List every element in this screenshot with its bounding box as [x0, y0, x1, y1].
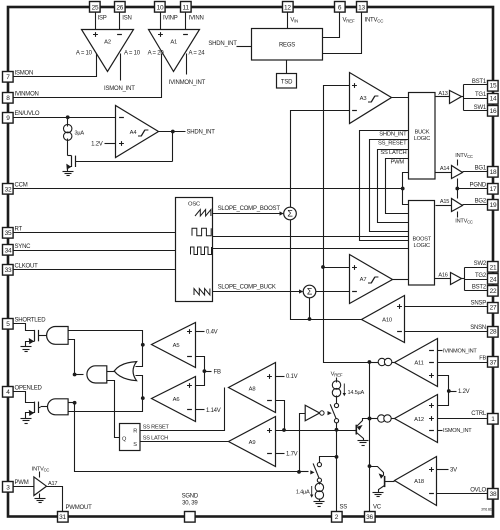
svg-text:3791 BD: 3791 BD [481, 508, 493, 512]
svg-text:A4: A4 [130, 130, 138, 136]
svg-text:IVINMON: IVINMON [15, 91, 39, 97]
block TSD [277, 74, 297, 89]
svg-text:1.2V: 1.2V [458, 389, 470, 395]
svg-text:21: 21 [490, 264, 497, 271]
wire [392, 362, 395, 364]
wire sigma1 to A3- [291, 111, 350, 208]
ground [21, 347, 32, 352]
svg-text:VREF: VREF [343, 18, 355, 24]
svg-text:37: 37 [490, 359, 497, 366]
pin 25 ISP [90, 2, 101, 13]
svg-text:IVINN: IVINN [189, 15, 204, 21]
svg-text:A16: A16 [438, 273, 447, 279]
svg-text:6: 6 [338, 4, 342, 11]
svg-text:BG1: BG1 [475, 165, 487, 171]
wire Q2 emitter from VC [370, 467, 384, 476]
svg-text:7: 7 [6, 74, 10, 81]
svg-text:R: R [133, 429, 137, 435]
node A7+ tap [321, 265, 325, 269]
svg-text:CLKOUT: CLKOUT [15, 263, 39, 269]
wire ISN pin26 to A2- [119, 13, 121, 30]
pin 27 SNSP [488, 303, 499, 314]
op-amp A12 [395, 395, 438, 443]
wire A6 out to G2 [69, 399, 143, 412]
current source 1.4uA [315, 483, 323, 499]
node A6 out node [141, 396, 145, 400]
wire VC to A3+ and A7+ [324, 86, 350, 268]
svg-text:BOOST: BOOST [412, 237, 431, 243]
wire SS_RESET buck-boost [370, 140, 409, 232]
node VC at Q2 [368, 464, 372, 468]
node VC at Q1 [368, 417, 372, 421]
svg-text:TG2: TG2 [475, 273, 487, 279]
wire Q1 collector to gnd [357, 433, 364, 441]
node FB node [203, 369, 207, 373]
svg-text:33: 33 [5, 267, 12, 274]
op-amp A11 [395, 339, 438, 387]
svg-text:A = 10: A = 10 [76, 51, 93, 57]
wire VC down to error amps [324, 268, 370, 363]
svg-text:A14: A14 [440, 166, 449, 172]
pin 8 IVINMON [3, 93, 14, 104]
pin 15 BST1 [488, 81, 499, 92]
pin 37 FB [488, 357, 499, 368]
svg-text:ISMON: ISMON [15, 70, 34, 76]
svg-text:Σ: Σ [307, 287, 313, 297]
wire BST2 [465, 290, 488, 292]
node SS at switch2 [335, 455, 339, 459]
svg-text:A = 24: A = 24 [189, 51, 206, 57]
summer sigma1 (boost slope comp) [284, 207, 297, 220]
op-amp A3 [350, 73, 392, 124]
wire A6 to OR in2 [136, 376, 143, 399]
svg-text:1.4µA: 1.4µA [296, 489, 310, 495]
svg-text:10: 10 [157, 4, 164, 11]
wire OPENLED pin4 to fet drain [14, 392, 35, 403]
svg-text:Σ: Σ [287, 209, 293, 219]
op-amp A14 [440, 166, 463, 179]
svg-text:SHDN_INT: SHDN_INT [208, 41, 237, 47]
svg-text:ISMON_INT: ISMON_INT [443, 428, 472, 434]
pin 17 PGND [488, 184, 499, 195]
node SHDN_INT node [171, 130, 175, 134]
wire EN/UVLO pin9 to A4- [14, 117, 116, 119]
wire A17 out to PWMOUT pin31 [47, 487, 63, 512]
svg-text:A17: A17 [48, 481, 57, 487]
wire A1 out IVINMON_INT [186, 54, 188, 75]
svg-text:15: 15 [490, 83, 497, 90]
wire FB stub [205, 371, 212, 373]
svg-text:VREF: VREF [331, 371, 343, 377]
node VC at A12 [368, 417, 372, 421]
svg-text:SW2: SW2 [474, 261, 487, 267]
wire [249, 46, 252, 48]
pin 7 ISMON [3, 72, 14, 83]
ground [21, 419, 32, 424]
wire A2 out ISMON_INT [120, 54, 122, 81]
svg-text:0.1V: 0.1V [286, 374, 298, 380]
svg-text:SLOPE_COMP_BUCK: SLOPE_COMP_BUCK [218, 284, 276, 290]
svg-text:A5: A5 [173, 343, 180, 349]
wire fet source to gnd [26, 413, 35, 419]
wire buck to A13 [436, 96, 450, 98]
svg-text:A8: A8 [249, 386, 256, 392]
pin 19 BG2 [488, 200, 499, 211]
wire 3V stub [437, 469, 449, 471]
svg-text:SS: SS [340, 505, 348, 511]
op-amp A6 [152, 377, 196, 422]
svg-text:VC: VC [373, 505, 382, 511]
svg-text:28: 28 [490, 329, 497, 336]
svg-text:35: 35 [5, 230, 12, 237]
ground [314, 502, 325, 507]
pin 12 VIN [283, 2, 294, 13]
svg-text:INTVCC: INTVCC [455, 153, 473, 159]
wire boost to A15 [436, 205, 452, 207]
wire OVLO to A18 [437, 493, 488, 495]
op-amp A16 [438, 273, 461, 285]
wire PWM pin3 to A17 [14, 486, 34, 488]
wire SS bus [276, 430, 354, 432]
wire A2 out to ISMON pin7 [14, 54, 97, 77]
pin 13 INTVCC [357, 2, 368, 13]
wire slope comp buck to sum2 [213, 291, 300, 293]
wire latch Q to AND in2 [107, 381, 120, 438]
pin 36 VC [365, 512, 376, 523]
svg-text:8: 8 [6, 95, 10, 102]
pin 18 BG1 [488, 167, 499, 178]
pin 11 IVINN [181, 2, 192, 13]
svg-text:LOGIC: LOGIC [414, 136, 430, 142]
wire bus to G1 [69, 340, 75, 375]
svg-text:A2: A2 [104, 40, 111, 46]
op-amp A1 [149, 30, 200, 72]
wire [354, 430, 357, 432]
svg-text:OVLO: OVLO [470, 487, 486, 493]
wire boost to A16 [435, 278, 451, 280]
gate AND center [87, 366, 107, 383]
svg-text:SHDN_INT: SHDN_INT [187, 130, 216, 136]
svg-text:BUCK: BUCK [415, 130, 430, 136]
OSC square wave 1 icon [192, 228, 211, 236]
pin 28 SNSN [488, 327, 499, 338]
svg-text:SNSN: SNSN [470, 325, 486, 331]
pin 1 CTRL [488, 414, 499, 425]
pin 2 SS [332, 512, 343, 523]
svg-text:26: 26 [116, 4, 123, 11]
wire 3uA to MOSFET drain [67, 139, 69, 156]
wire bus down to switch line [75, 403, 300, 472]
svg-text:PWM: PWM [15, 480, 29, 486]
wire RT pin35 to OSC [14, 232, 176, 234]
op-amp A7 [350, 255, 393, 304]
pin 32 CCM [3, 184, 14, 195]
svg-text:SGND: SGND [182, 493, 199, 499]
wire SHDN_INT buck-boost [360, 131, 409, 241]
wire SHORTLED pin5 to fet drain [14, 324, 35, 331]
pin 33 CLKOUT [3, 265, 14, 276]
svg-text:PWMOUT: PWMOUT [66, 505, 93, 511]
pin 5 SHORTLED [3, 319, 14, 330]
svg-text:BST1: BST1 [472, 79, 487, 85]
op-amp A5 [152, 323, 196, 368]
svg-text:11: 11 [183, 4, 190, 11]
op-amp A8 [229, 363, 276, 413]
wire 1.14V stub [196, 409, 205, 411]
svg-text:4: 4 [6, 389, 10, 396]
block BUCK LOGIC [409, 93, 436, 180]
svg-text:A6: A6 [173, 397, 180, 403]
svg-text:22: 22 [490, 288, 497, 295]
pin 10 IVINP [155, 2, 166, 13]
pin 14 TG1 [488, 94, 499, 105]
pin 21 SW2 [488, 262, 499, 273]
inverter A-inv [305, 405, 319, 421]
svg-text:25: 25 [92, 4, 99, 11]
summer sigma2 (buck slope comp) [303, 285, 316, 298]
pin 35 RT [3, 228, 14, 239]
wire A10 out to sigma1 [291, 220, 362, 320]
svg-text:A9: A9 [249, 440, 256, 446]
wire to switch2 arrow [300, 471, 309, 473]
svg-text:IVINMON_INT: IVINMON_INT [443, 349, 477, 355]
svg-text:34: 34 [5, 247, 12, 254]
svg-text:TG1: TG1 [475, 92, 487, 98]
svg-text:INTVCC: INTVCC [455, 219, 473, 225]
svg-text:ISMON_INT: ISMON_INT [104, 86, 135, 92]
wire A8 out SS_RESET to latch R [141, 388, 225, 431]
ground [373, 493, 384, 497]
svg-text:1.7V: 1.7V [286, 452, 298, 458]
svg-text:A12: A12 [414, 417, 424, 423]
svg-text:36: 36 [366, 514, 373, 521]
wire CTRL to A12 [438, 418, 488, 420]
wire BST1 [464, 84, 488, 86]
latch SR [120, 424, 141, 451]
svg-text:BST2: BST2 [472, 285, 487, 291]
wire A5 to OR in1 [136, 345, 143, 367]
svg-text:SHDN_INT: SHDN_INT [379, 132, 407, 138]
svg-text:SLOPE_COMP_BOOST: SLOPE_COMP_BOOST [218, 206, 281, 212]
svg-text:SNSP: SNSP [471, 301, 487, 307]
wire 1.2V to A4+ [105, 143, 116, 145]
wire sigma2 lower input [309, 298, 311, 320]
svg-text:1: 1 [491, 416, 495, 423]
svg-text:17: 17 [490, 186, 497, 193]
svg-text:CCM: CCM [15, 182, 28, 188]
wire FB to A11 [438, 362, 488, 364]
svg-text:1.2V: 1.2V [91, 141, 103, 147]
svg-text:SS RESET: SS RESET [143, 424, 170, 430]
pin 31 PWMOUT [58, 512, 69, 523]
svg-text:0.4V: 0.4V [206, 330, 218, 336]
node sigma2 tap [308, 317, 312, 321]
gate OR [114, 362, 136, 381]
svg-text:SS_RESET: SS_RESET [378, 141, 407, 147]
wire A4 out SHDN_INT [159, 131, 186, 133]
node bus at G2 [73, 401, 77, 405]
wire OSC clock1 to boost logic [213, 236, 409, 238]
wire SS LATCH buck-boost [378, 150, 409, 223]
svg-text:13: 13 [358, 4, 365, 11]
svg-text:31: 31 [59, 514, 66, 521]
wire switch2 to 1.4uA [319, 483, 321, 485]
svg-text:LOGIC: LOGIC [414, 243, 430, 249]
wire A9 out SS LATCH to latch S [141, 441, 229, 443]
wire PGND [458, 188, 488, 190]
wire SYNC pin34 to OSC [14, 250, 176, 252]
block REGS [252, 29, 323, 61]
op-amp A18 [395, 457, 437, 506]
pin 38 OVLO [488, 489, 499, 500]
wire ISP pin25 to A2+ [95, 13, 97, 30]
wire Q2 collector to gnd [379, 486, 385, 493]
wire SHDN_INT into REGS [237, 46, 249, 48]
svg-text:30, 39: 30, 39 [182, 500, 198, 506]
wire bus to G2 top input [69, 402, 75, 404]
svg-text:A = 10: A = 10 [124, 51, 141, 57]
wire TG1 [464, 98, 488, 100]
wire OSC clock2 to boost logic [213, 248, 409, 250]
wire 1.7V stub [276, 453, 285, 455]
pin 3 PWM [3, 482, 14, 493]
node 1.2V node [447, 389, 451, 393]
op-amp A2 [82, 30, 134, 72]
wire VREF to 14.5uA [336, 378, 338, 383]
wire CCM pin32 to logic [14, 188, 403, 190]
wire INTVCC pin13 to REGS [323, 13, 362, 54]
svg-text:SYNC: SYNC [15, 244, 32, 250]
svg-text:12: 12 [284, 4, 291, 11]
current mirror A12 [378, 415, 392, 422]
wire SW1 [464, 110, 488, 112]
svg-text:PWM: PWM [390, 160, 404, 166]
OSC sawtooth slope comp buck icon [194, 289, 210, 296]
svg-text:24: 24 [490, 276, 497, 283]
pin 6 VREF [335, 2, 346, 13]
node AND out node [73, 373, 77, 377]
wire SHDN_INT to fet gate [172, 132, 174, 162]
svg-text:OSC: OSC [188, 202, 200, 208]
svg-text:RT: RT [15, 226, 23, 232]
wire A4 hysteresis fet gate [76, 161, 173, 163]
wire SS to pin2 [336, 430, 338, 512]
wire IVINN pin11 to A1- [185, 13, 187, 30]
svg-text:PGND: PGND [470, 182, 487, 188]
svg-text:CTRL: CTRL [471, 411, 487, 417]
wire 14.5uA to switch1 [336, 396, 338, 404]
wire BG1 [463, 171, 488, 173]
svg-text:16: 16 [490, 108, 497, 115]
pin SGND [185, 512, 196, 523]
svg-text:38: 38 [490, 491, 497, 498]
wire A16 fan [464, 268, 466, 291]
node A5 out node [141, 343, 145, 347]
wire INTVCC stub A15 [457, 212, 459, 218]
switch S2 [313, 463, 321, 483]
wire REGS to TSD [286, 60, 288, 74]
wire VREF pin6 to REGS [323, 13, 340, 38]
svg-text:VIN: VIN [290, 18, 298, 24]
svg-text:32: 32 [5, 186, 12, 193]
wire INTVCC to A17 [39, 472, 41, 478]
ground [63, 172, 74, 176]
svg-text:A10: A10 [382, 318, 392, 324]
wire 0.1V stub [276, 376, 285, 378]
svg-text:BG2: BG2 [475, 198, 487, 204]
pin 16 SW1 [488, 106, 499, 117]
wire A14 A15 pgnd link [457, 179, 459, 199]
wire buck to A14 [436, 172, 452, 174]
svg-text:SS LATCH: SS LATCH [380, 150, 406, 156]
wire OR out to AND in1 [107, 371, 115, 373]
buffer A17 [34, 477, 47, 496]
svg-text:3V: 3V [450, 467, 457, 473]
wire A3 out to buck logic [392, 97, 409, 99]
wire VC vertical to pin36 [369, 363, 371, 512]
wire A8- to SS bus [276, 401, 285, 431]
op-amp A9 [229, 417, 276, 467]
wire sigma2 out to A7- [316, 291, 350, 293]
svg-text:SW1: SW1 [474, 105, 487, 111]
pin 34 SYNC [3, 245, 14, 256]
wire fet gate stub [39, 407, 41, 409]
wire slope comp boost to sum1 [213, 213, 280, 215]
wire 1.4uA to gnd [319, 499, 321, 502]
wire Q1 emitter to VC [357, 419, 370, 427]
svg-text:OPENLED: OPENLED [15, 385, 43, 391]
wire SNSP [405, 306, 488, 308]
wire INTVCC stub A14 [457, 160, 459, 166]
wire BG2 [463, 204, 488, 206]
wire 1.2V stub [449, 391, 457, 393]
svg-text:FB: FB [479, 355, 486, 361]
wire IVINP pin10 to A1+ [160, 13, 162, 30]
current source 14.5uA [332, 381, 340, 397]
svg-text:18: 18 [490, 169, 497, 176]
node SS bus node [282, 428, 286, 432]
node SS node [335, 428, 339, 432]
wire fet gate stub [39, 335, 41, 337]
wire fet source to gnd [26, 342, 35, 347]
wire A5 out to G1 [69, 331, 143, 345]
wire SW2 [465, 267, 488, 269]
wire A13 fan [463, 85, 465, 111]
wire A7 out to boost logic [393, 279, 409, 281]
svg-text:ISP: ISP [98, 15, 107, 21]
gate G2 (AND) openled [48, 399, 69, 415]
op-amp A10 [362, 296, 405, 343]
wire inverter input from blanking [300, 414, 306, 472]
node CCM junction [401, 187, 405, 191]
svg-text:IVINMON_INT: IVINMON_INT [169, 80, 206, 86]
wire PWM buck-boost [386, 159, 409, 214]
op-amp A13 [438, 91, 461, 104]
svg-text:S: S [133, 442, 137, 448]
wire G2 out to fet [41, 406, 48, 408]
svg-text:IVINP: IVINP [163, 15, 178, 21]
ground [358, 441, 369, 446]
wire fet source to gnd [68, 167, 72, 172]
pin 24 TG2 [488, 274, 499, 285]
node PGND junction [455, 187, 459, 191]
svg-text:ISN: ISN [122, 15, 131, 21]
wire SNSN [405, 331, 488, 333]
wire G1 out to fet [41, 335, 47, 337]
svg-text:19: 19 [490, 202, 497, 209]
wire 0.4V stub [196, 331, 205, 333]
op-amp A15 [440, 199, 463, 212]
